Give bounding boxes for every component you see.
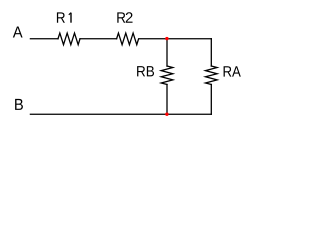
node label B bbox=[15, 99, 23, 110]
wire B bottom rail bbox=[30, 113, 211, 115]
wire top junction down to RB bbox=[166, 39, 168, 66]
wire RA to bottom-right corner bbox=[210, 85, 212, 115]
wire A to R1 bbox=[30, 38, 58, 40]
wire R2 to top-right corner bbox=[140, 38, 212, 40]
label RB bbox=[137, 66, 154, 76]
node label A bbox=[13, 26, 23, 37]
wire R1 to R2 bbox=[80, 38, 117, 40]
resistor RA bbox=[206, 66, 218, 85]
resistor R2 bbox=[117, 33, 139, 45]
resistor R1 bbox=[58, 33, 80, 45]
junction node bottom (red) bbox=[165, 113, 168, 116]
resistor RB bbox=[161, 66, 173, 85]
label RA bbox=[224, 66, 241, 76]
label R1: digit 1 drawn (Arial-style, no foot) bbox=[69, 13, 71, 23]
wire top-right corner down to RA bbox=[210, 39, 212, 66]
wire RB to bottom junction bbox=[166, 85, 168, 115]
label R1: R bbox=[57, 12, 65, 22]
junction node top (red) bbox=[165, 37, 168, 40]
label R2 bbox=[117, 12, 132, 22]
